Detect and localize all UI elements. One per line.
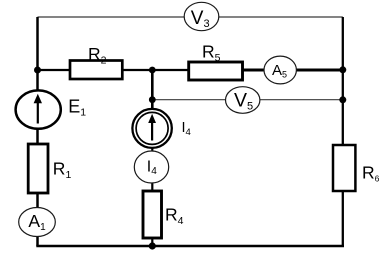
- resistor R5: [189, 41, 243, 80]
- resistor R6: [333, 145, 380, 191]
- wire R4 to bottom: [151, 237, 153, 246]
- wire main horizontal row: [36, 69, 242, 71]
- node right junction V5: [339, 96, 346, 103]
- ammeter I4: [134, 151, 168, 183]
- resistor R2: [70, 44, 122, 79]
- voltmeter V5: [226, 87, 260, 114]
- ammeter A5: [264, 56, 296, 84]
- ammeter A1: [19, 208, 56, 237]
- wire V5 tap: [152, 99, 342, 101]
- wire right rail: [342, 17, 344, 246]
- node right junction A5: [339, 66, 346, 73]
- wire middle rail through I4 meter: [151, 146, 153, 192]
- resistor R4: [143, 191, 184, 238]
- wire left rail: [36, 17, 39, 246]
- current source I4: [132, 109, 190, 148]
- node bottom junction: [149, 242, 156, 249]
- wire R5 to A5 to right rail (thick): [243, 68, 343, 71]
- wire middle rail upper: [151, 70, 154, 111]
- voltmeter V3: [184, 2, 219, 30]
- node middle V5 tap: [149, 96, 156, 103]
- node left junction: [34, 67, 41, 74]
- resistor R1: [28, 144, 71, 193]
- wire top V3 loop: [38, 16, 343, 18]
- node middle junction top: [149, 67, 156, 74]
- wire bottom: [36, 245, 344, 248]
- source E1: [16, 90, 87, 128]
